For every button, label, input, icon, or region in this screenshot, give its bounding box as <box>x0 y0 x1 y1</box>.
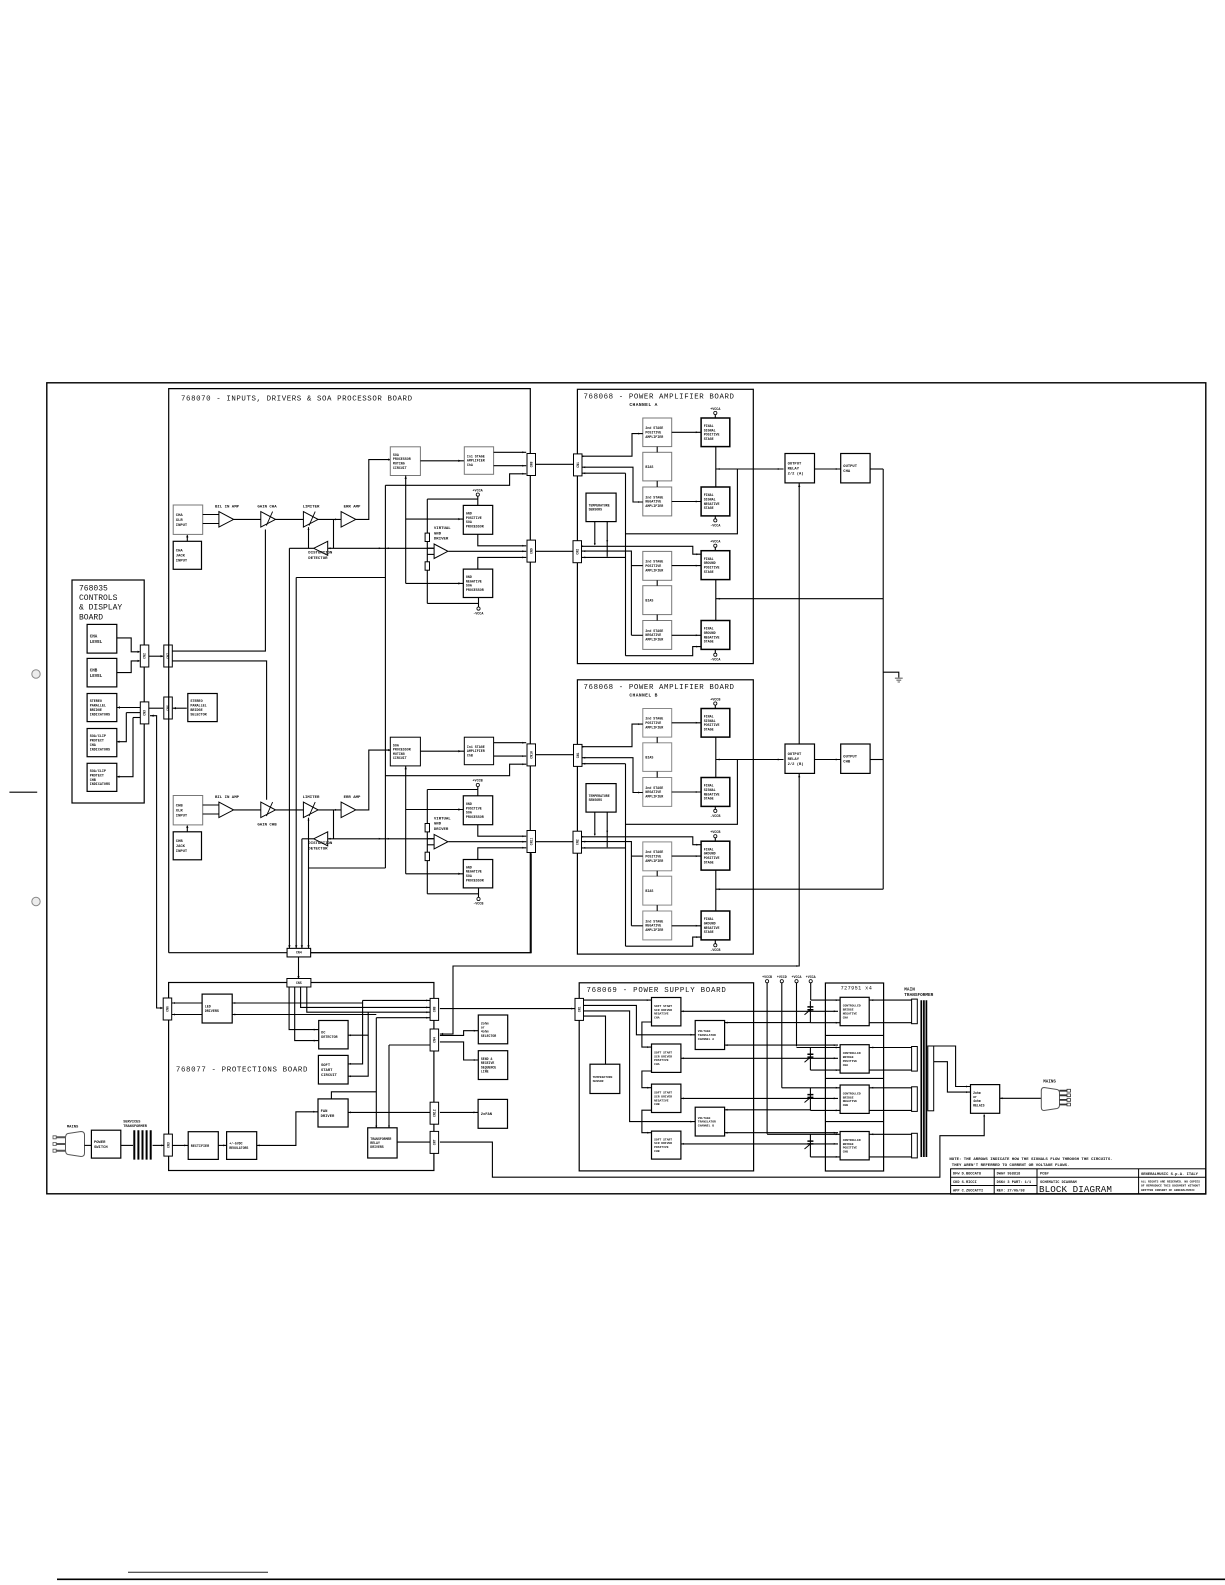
svg-text:SCR DRIVER: SCR DRIVER <box>654 1055 672 1058</box>
wire transformer to CN3p <box>153 1144 165 1146</box>
svg-text:CHB: CHB <box>90 669 98 673</box>
terminal +VCCA rail 3 <box>795 980 798 983</box>
svg-text:CHA: CHA <box>176 514 184 518</box>
svg-text:TRANSLATOR: TRANSLATOR <box>698 1121 716 1124</box>
wire bus to GND POSITIVE SOA PROCESSOR CHB <box>406 809 464 811</box>
board 768035 CONTROLS & DISPLAY outline <box>72 580 144 803</box>
svg-text:SCR DRIVER: SCR DRIVER <box>654 1142 672 1145</box>
box BIAS (ground) CHA <box>643 586 672 615</box>
svg-text:VIRTUALGNDDRIVER: VIRTUALGNDDRIVER <box>434 817 451 832</box>
svg-text:SOFT START: SOFT START <box>654 1138 672 1141</box>
wire soft start chain 3 <box>642 1110 652 1133</box>
wire CN2 to CN7 <box>149 655 163 657</box>
svg-text:RELAIS: RELAIS <box>973 1103 985 1107</box>
wire CN8p net1 to soft start <box>363 999 431 1001</box>
svg-text:-VCCA: -VCCA <box>473 612 484 616</box>
svg-text:ChB: ChB <box>467 753 473 757</box>
terminal -VCCB ground <box>714 944 717 947</box>
wire vgd rail top CHB <box>427 789 478 791</box>
svg-text:CN11: CN11 <box>529 838 533 846</box>
box SOA PROCESSOR MUTING CIRCUIT CHA <box>390 447 420 476</box>
svg-text:NEGATIVE: NEGATIVE <box>654 1099 669 1102</box>
svg-text:AMPLIFIER: AMPLIFIER <box>645 435 663 439</box>
wire CN8p to CN1 power supply <box>440 1008 575 1010</box>
svg-text:PROTECT: PROTECT <box>90 740 104 744</box>
wire bridge 1 to winding <box>869 999 911 1001</box>
wire +VCCB into FSP CHB <box>714 705 716 708</box>
svg-text:ERR AMP: ERR AMP <box>344 506 361 510</box>
box SOA/CLIP PROTECT CHB INDICATORS <box>87 763 117 791</box>
wire STEREO SELECTOR to CN6 <box>173 707 187 709</box>
svg-text:-VCCA: -VCCA <box>710 524 721 528</box>
svg-text:OUTPUT: OUTPUT <box>788 753 802 757</box>
svg-text:CN3: CN3 <box>166 1142 170 1148</box>
wire GNS bottom to -VCCA <box>478 598 480 608</box>
wire In1 out1 to CN8 <box>494 451 527 453</box>
svg-text:CN10: CN10 <box>529 751 533 759</box>
svg-text:CONTROLLED: CONTROLLED <box>843 1092 861 1095</box>
svg-text:CN7: CN7 <box>166 653 170 659</box>
svg-text:INDICATORS: INDICATORS <box>90 749 110 753</box>
svg-text:LED: LED <box>205 1006 211 1010</box>
wire CN8p net2 to soft start 2 <box>348 1012 368 1076</box>
wire CN2 ground drive bus CHB <box>582 842 632 926</box>
box 2ohm or 4ohm RELAIS <box>971 1085 1000 1114</box>
box OUTPUT CHB <box>841 744 870 773</box>
svg-text:JACK: JACK <box>176 555 186 559</box>
svg-text:NOTE: THE ARROWS INDICATE HOW: NOTE: THE ARROWS INDICATE HOW THE SIGNAL… <box>949 1158 1112 1168</box>
svg-text:SOFT START: SOFT START <box>654 1005 672 1008</box>
svg-text:CN1: CN1 <box>577 1006 581 1012</box>
svg-text:CONTROLLED: CONTROLLED <box>843 1139 861 1142</box>
box CONTROLLED BRIDGE NEGATIVE CHA <box>840 997 869 1025</box>
wire output CHA to common <box>870 468 883 470</box>
board 727951 x4 outline <box>825 983 883 1171</box>
svg-text:CN12: CN12 <box>432 1109 436 1117</box>
wire CN1 drive+ CHA <box>582 434 643 457</box>
wire CN3a to protections CN6 <box>150 716 162 1008</box>
box TEMPERATURE SENSOR ps <box>590 1064 620 1093</box>
amp DISTORTION DETECTOR CHB <box>314 832 328 846</box>
wire VGD out to CN9 <box>448 550 526 552</box>
wire feedback to CN2 CHA <box>582 556 626 558</box>
page bottom rule <box>57 1578 1225 1580</box>
svg-text:CONTROLLED: CONTROLLED <box>843 1005 861 1008</box>
wire CN1ps w3 to VT B <box>583 1011 695 1122</box>
svg-text:STAGE: STAGE <box>704 860 714 864</box>
wire In1 out2 to CN8 <box>494 465 527 467</box>
box SEND & RECEIVE SEQUENCE LINE <box>478 1051 507 1080</box>
box CHB LEVEL <box>87 658 117 687</box>
wire bridge 4 bottom port <box>810 1156 840 1158</box>
wire bias links ground CHA <box>656 580 658 585</box>
svg-text:ALL RIGHTS ARE RESERVED. NO CO: ALL RIGHTS ARE RESERVED. NO COPIESOF REP… <box>1141 1180 1200 1192</box>
svg-text:CN4: CN4 <box>432 1037 436 1043</box>
svg-text:DRIVER: DRIVER <box>321 1115 335 1119</box>
svg-text:SELECTOR: SELECTOR <box>481 1034 496 1038</box>
svg-text:CHANNEL A: CHANNEL A <box>629 402 657 408</box>
wire regulators to fan driver <box>257 1112 318 1146</box>
box BIAS (signal) CHA <box>643 452 672 481</box>
resistor vgd upper CHA <box>425 533 429 541</box>
wire BAL to GAIN CHA <box>234 518 261 520</box>
wire SSNA out <box>681 1010 838 1012</box>
box FINAL SIGNAL NEGATIVE STAGE CHB <box>701 778 730 807</box>
wire bridge 3 bottom port <box>810 1109 840 1111</box>
box 2xFAN <box>478 1099 507 1128</box>
wire CN5 to DC detector upper <box>289 986 319 1029</box>
connector CN8 protections <box>430 998 439 1020</box>
svg-text:INDICATORS: INDICATORS <box>90 713 110 717</box>
connector CN4 top <box>287 948 311 957</box>
amp DISTORTION DETECTOR CHA <box>314 541 328 555</box>
wire relay B return junction arrow <box>795 965 797 967</box>
box 2ohm or 4ohm SELECTOR <box>478 1015 507 1044</box>
svg-text:TRANSLATOR: TRANSLATOR <box>698 1034 716 1037</box>
wire output CHB to common <box>870 759 883 761</box>
box 2nd STAGE POSITIVE AMPLIFIER (signal) CHA <box>643 418 672 447</box>
box OUTPUT RELAY 2/2 (A) <box>785 454 815 483</box>
box GND POSITIVE SOA PROCESSOR CHB <box>463 796 492 825</box>
svg-text:AMPLIFIER: AMPLIFIER <box>645 859 663 863</box>
wire temp sensor 2 CHB <box>606 812 608 847</box>
svg-text:CHA: CHA <box>843 1016 849 1019</box>
wire CN2 to FGP upper-left CHA <box>582 546 701 554</box>
svg-text:POSITIVE: POSITIVE <box>654 1146 669 1149</box>
box BIAS (ground) CHB <box>643 876 672 905</box>
wire LIMITER to ERR AMP A <box>318 518 341 520</box>
svg-text:CN2: CN2 <box>575 839 579 845</box>
wire secondary tap 2 to relais <box>934 1062 971 1092</box>
wire feedback to CN2 CHB <box>582 847 626 849</box>
board 768070 INPUTS DRIVERS & SOA PROCESSOR outline <box>169 389 531 953</box>
svg-text:CN1: CN1 <box>576 462 580 468</box>
wire relay B bottom return to protections CN4 <box>440 773 799 1034</box>
wire VTA out1 <box>725 1022 811 1024</box>
wire CN5 to DC detector lower <box>295 986 319 1040</box>
connector CN2 power amp CHA <box>573 541 582 563</box>
svg-text:CHA: CHA <box>654 1063 660 1066</box>
wire CN9 to CN2 <box>535 550 573 552</box>
svg-text:POWER: POWER <box>94 1141 106 1145</box>
svg-text:PARALLEL: PARALLEL <box>90 705 106 709</box>
svg-text:SOFT START: SOFT START <box>654 1051 672 1054</box>
svg-text:STAGE: STAGE <box>704 930 714 934</box>
wire GPS bottom to CN11 <box>478 825 526 837</box>
svg-text:RECTIFIER: RECTIFIER <box>191 1145 210 1149</box>
svg-text:CHB: CHB <box>90 779 96 783</box>
svg-text:POSITIVE: POSITIVE <box>843 1147 858 1150</box>
svg-text:APP C.ZUCCATTI: APP C.ZUCCATTI <box>953 1190 983 1194</box>
svg-text:STAGE: STAGE <box>704 437 714 441</box>
svg-text:CN2: CN2 <box>143 653 147 659</box>
svg-text:INPUT: INPUT <box>176 524 188 528</box>
wire CN8 to CN1 <box>535 463 574 465</box>
terminal +VCCA rail 4 <box>809 980 812 983</box>
wire FSN to -VCCB <box>714 806 716 809</box>
connector CN7 inputs board <box>164 645 173 667</box>
box SOFT START SCR DRIVER NEGATIVE CHB <box>652 1084 681 1112</box>
svg-text:CHA: CHA <box>843 470 851 474</box>
wire FGN to -VCCA <box>714 649 716 653</box>
box SOFT START SCR DRIVER POSITIVE CHB <box>652 1131 681 1159</box>
wire 2sn to fsn CHA <box>672 501 701 503</box>
svg-text:GENERALMUSIC S.p.A. ITALY: GENERALMUSIC S.p.A. ITALY <box>1141 1173 1199 1177</box>
svg-text:BRIDGE: BRIDGE <box>190 709 202 713</box>
box CONTROLLED BRIDGE POSITIVE CHA <box>840 1045 869 1073</box>
svg-text:JACK: JACK <box>176 845 186 849</box>
wire secondary tap 1 to relais <box>934 1046 971 1087</box>
box FINAL SIGNAL NEGATIVE STAGE CHA <box>701 487 730 516</box>
terminal -VCCB soa <box>477 897 480 900</box>
wire CN3p to rectifier <box>172 1144 189 1146</box>
box GND POSITIVE SOA PROCESSOR CHA <box>463 505 492 534</box>
board 768068 POWER AMPLIFIER CHB outline <box>577 680 753 954</box>
svg-text:SOFT START: SOFT START <box>654 1092 672 1095</box>
board 768068 POWER AMPLIFIER CHA outline <box>577 389 753 663</box>
wire DC detector right tap <box>348 1034 368 1036</box>
wire FGP-FGN output column CHB <box>715 870 717 911</box>
terminal +VCCB ground <box>714 835 717 838</box>
wire XLR to BAL IN AMP A pins <box>203 514 219 516</box>
svg-text:INPUT: INPUT <box>176 815 188 819</box>
wire limiter control CHB <box>308 818 310 839</box>
svg-text:BRIDGE: BRIDGE <box>843 1096 854 1099</box>
svg-text:PROCESSOR: PROCESSOR <box>466 588 484 592</box>
terminal -VCCB signal <box>714 809 717 812</box>
wire ERR AMP A out to muting circuit <box>356 460 391 520</box>
scr column bridge 3 <box>809 1088 811 1111</box>
thyristor SCR bridge 4 <box>807 1141 813 1144</box>
wire bridge 2 bottom port <box>810 1069 840 1071</box>
svg-text:BRIDGE: BRIDGE <box>843 1143 854 1146</box>
svg-text:DRIVERS: DRIVERS <box>205 1010 219 1014</box>
svg-text:MAINS: MAINS <box>1043 1080 1056 1084</box>
svg-text:BRIDGE: BRIDGE <box>843 1009 854 1012</box>
svg-text:CN8: CN8 <box>432 1006 436 1012</box>
secondary winding <box>928 1046 934 1111</box>
wire relais to mains plug <box>1000 1097 1042 1099</box>
svg-text:SCR DRIVER: SCR DRIVER <box>654 1095 672 1098</box>
svg-text:SOA/CLIP: SOA/CLIP <box>90 769 106 774</box>
svg-text:STAGE: STAGE <box>704 727 714 731</box>
svg-text:-VCCB: -VCCB <box>473 903 483 907</box>
svg-text:BRIDGE: BRIDGE <box>843 1056 854 1059</box>
wire VTA out2 <box>725 1044 838 1046</box>
svg-text:CN1: CN1 <box>576 752 580 758</box>
link underline <box>128 1571 268 1573</box>
box FINAL GROUND NEGATIVE STAGE CHA <box>701 621 730 650</box>
wire rail into bridge 2 top <box>797 1047 841 1049</box>
wire +VCCA into FGP CHA <box>714 547 716 550</box>
wire In1 out1 to CN10 <box>494 742 527 744</box>
svg-text:-VCCA: -VCCA <box>710 659 721 663</box>
svg-text:CHB: CHB <box>843 1151 849 1154</box>
box 2nd STAGE POSITIVE AMPLIFIER (signal) CHB <box>643 709 672 738</box>
wire DD bus CHB down to CN4 <box>301 839 303 948</box>
wire rail +VCCB 1 <box>766 983 768 1134</box>
wire 2sp to fsp CHA <box>672 431 701 433</box>
svg-text:STAGE: STAGE <box>704 797 714 801</box>
wire feedback into FGN lower CHB <box>626 937 702 946</box>
svg-text:768035CONTROLS& DISPLAYBOARD: 768035CONTROLS& DISPLAYBOARD <box>79 585 122 623</box>
box SOFT START SCR DRIVER POSITIVE CHA <box>652 1044 681 1072</box>
box +/-5VDC REGULATORS <box>227 1132 257 1160</box>
resistor vgd upper CHB <box>425 824 429 832</box>
svg-text:SENSORS: SENSORS <box>589 798 602 802</box>
wire CN2-right to GAIN CHB control <box>172 661 266 800</box>
wire +VCCA into FSP CHA <box>714 415 716 418</box>
box 2nd STAGE POSITIVE AMPLIFIER (ground) CHA <box>643 551 672 580</box>
amp VIRTUAL GND DRIVER CHB <box>434 834 448 849</box>
svg-text:NEGATIVE: NEGATIVE <box>654 1013 669 1016</box>
wire relay to output CHA <box>815 468 841 470</box>
wire SSPA out <box>681 1057 838 1059</box>
wire feedback into FGN lower CHA <box>626 647 702 656</box>
wire BAL to GAIN CHB <box>234 809 261 811</box>
svg-text:CN6: CN6 <box>165 1006 169 1012</box>
svg-text:727951 x4: 727951 x4 <box>841 986 873 992</box>
svg-text:DWG# 958818: DWG# 958818 <box>997 1173 1021 1177</box>
wire +VCCB to GPS top <box>477 787 479 796</box>
wire muting bottom bus CHA <box>405 476 407 584</box>
svg-text:CHA: CHA <box>90 636 98 640</box>
box OUTPUT CHA <box>841 454 870 483</box>
svg-text:STAGE: STAGE <box>704 570 714 574</box>
services transformer bars <box>134 1130 150 1159</box>
svg-text:PARALLEL: PARALLEL <box>190 705 206 709</box>
svg-text:CHA: CHA <box>843 1064 849 1067</box>
box STEREO PARALLEL BRIDGE INDICATORS <box>87 694 117 722</box>
svg-text:VOLTAGE: VOLTAGE <box>698 1117 711 1120</box>
wire soa line CHB right extension <box>334 838 434 840</box>
box CHA JACK INPUT <box>173 541 201 569</box>
svg-text:VOLTAGE: VOLTAGE <box>698 1030 711 1033</box>
wire TRD feed 2 from CN4p <box>389 1044 430 1046</box>
svg-text:OUTPUT: OUTPUT <box>788 463 802 467</box>
svg-text:CN9: CN9 <box>529 548 533 554</box>
wire soft start chain 2 <box>642 1071 652 1088</box>
terminal +VCCA ground <box>714 544 717 547</box>
wire signal tap to distortion detector CHA <box>333 519 335 548</box>
box SOFT START CIRCUIT <box>318 1055 348 1084</box>
connector CN4 protections right <box>430 1029 439 1051</box>
svg-text:POSITIVE: POSITIVE <box>843 1060 858 1063</box>
wire feed line to CN10 <box>385 764 526 776</box>
wire TRD feed 1 from CN8p <box>376 1017 430 1019</box>
box CHA LEVEL <box>87 624 117 653</box>
primary winding 3 <box>912 1087 918 1112</box>
wire feedback into CN1 CHA <box>582 472 625 474</box>
svg-text:LEVEL: LEVEL <box>90 641 103 645</box>
svg-text:+VCCB: +VCCB <box>762 975 772 979</box>
box VOLTAGE TRANSLATOR CHANNEL A <box>695 1021 724 1050</box>
wire CHB LEVEL to CN2 <box>117 661 140 673</box>
bridge section separators <box>825 1034 883 1036</box>
svg-text:768069 - POWER SUPPLY BOARD: 768069 - POWER SUPPLY BOARD <box>587 987 727 995</box>
svg-text:CIRCUIT: CIRCUIT <box>393 466 407 470</box>
binder hole bottom <box>32 897 40 905</box>
wire rail into bridge 1 top <box>811 999 840 1001</box>
wire 2gp to fgp CHA <box>672 565 701 567</box>
box CHA XLR INPUT <box>173 505 203 534</box>
svg-text:2/2 (A): 2/2 (A) <box>788 472 804 477</box>
wire rail into bridge 3 top <box>782 1087 840 1089</box>
box FINAL GROUND NEGATIVE STAGE CHB <box>701 911 730 940</box>
svg-text:BLOCK DIAGRAM: BLOCK DIAGRAM <box>1039 1184 1112 1195</box>
svg-text:CHANNEL B: CHANNEL B <box>629 693 657 699</box>
thyristor SCR bridge 1 <box>807 1007 813 1010</box>
svg-text:CN2: CN2 <box>575 549 579 555</box>
wire FGP-FGN output column CHA <box>715 580 717 621</box>
svg-text:BIL IN AMP: BIL IN AMP <box>215 796 240 800</box>
box GND NEGATIVE SOA PROCESSOR CHA <box>463 569 492 597</box>
wire rail +VCCD 2 <box>781 983 783 1088</box>
svg-text:PROCESSOR: PROCESSOR <box>466 815 484 819</box>
wire +VCCA to GPS top <box>477 496 479 505</box>
ground symbol <box>895 678 903 682</box>
wire CN11 down to CN4 bus <box>311 853 531 953</box>
wire soft start chain 1 <box>642 1022 652 1047</box>
connector CN1 power amp CHA <box>574 454 583 476</box>
wire 2gp to fgp CHB <box>672 855 701 857</box>
box SOFT START SCR DRIVER NEGATIVE CHA <box>652 998 681 1026</box>
box FAN DRIVER <box>318 1099 348 1127</box>
svg-text:AMPLIFIER: AMPLIFIER <box>645 504 663 508</box>
svg-text:+VCCA: +VCCA <box>792 975 802 979</box>
svg-text:MAINTRANSFORMER: MAINTRANSFORMER <box>904 987 933 998</box>
svg-text:SCR DRIVER: SCR DRIVER <box>654 1009 672 1012</box>
wire bridge 3 to winding <box>869 1087 911 1089</box>
svg-text:LEVEL: LEVEL <box>90 675 103 679</box>
wire bus to GND NEGATIVE SOA PROCESSOR CHB <box>406 873 464 875</box>
svg-text:LINE: LINE <box>481 1070 489 1074</box>
svg-text:INDICATORS: INDICATORS <box>90 783 110 787</box>
svg-text:STEREO: STEREO <box>90 700 102 704</box>
svg-text:BIAS: BIAS <box>645 889 653 893</box>
svg-text:AMPLIFIER: AMPLIFIER <box>645 725 663 729</box>
svg-text:POSITIVE: POSITIVE <box>654 1059 669 1062</box>
wire bridge 4 to winding <box>869 1133 911 1135</box>
box 2nd STAGE NEGATIVE AMPLIFIER (ground) CHB <box>643 911 672 940</box>
connector CN1 power amp CHB <box>574 744 583 766</box>
connector CN11 inputs board <box>527 831 536 853</box>
svg-text:CHA: CHA <box>654 1017 660 1020</box>
svg-text:CN3: CN3 <box>143 710 147 716</box>
svg-text:+VCCA: +VCCA <box>806 975 816 979</box>
wire GNS top to CN9 <box>478 557 526 569</box>
wire +VCCB into FGP CHB <box>714 838 716 841</box>
svg-text:TEMPERATURE: TEMPERATURE <box>593 1076 613 1079</box>
svg-text:NEGATIVE: NEGATIVE <box>843 1013 858 1016</box>
box CHB JACK INPUT <box>173 832 201 860</box>
svg-text:FAN: FAN <box>321 1110 329 1114</box>
wire 2sp to fsp CHB <box>672 722 701 724</box>
svg-text:768068 - POWER AMPLIFIER BOARD: 768068 - POWER AMPLIFIER BOARD <box>584 684 735 692</box>
terminal +VCCB soa <box>476 783 479 786</box>
amp LIMITER CHA <box>303 512 318 527</box>
box SOA PROCESSOR MUTING CIRCUIT CHB <box>390 737 420 766</box>
svg-text:DSK# 3 PART: 1/1: DSK# 3 PART: 1/1 <box>997 1180 1032 1185</box>
svg-text:2/2 (B): 2/2 (B) <box>788 762 804 767</box>
svg-text:PCB#: PCB# <box>1040 1173 1049 1177</box>
box FINAL SIGNAL POSITIVE STAGE CHB <box>701 709 730 738</box>
wire FSN to -VCCA <box>714 516 716 519</box>
wire distortion detector CHA input <box>328 547 334 549</box>
svg-text:MAINS: MAINS <box>67 1126 79 1130</box>
box TRANSFORMER RELAY DRIVERS <box>368 1128 397 1158</box>
svg-text:CN5: CN5 <box>296 981 302 985</box>
